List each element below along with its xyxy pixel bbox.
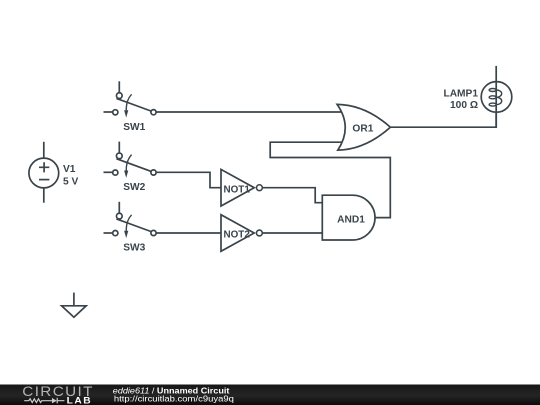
wire xyxy=(390,112,496,127)
svg-text:5 V: 5 V xyxy=(63,177,78,188)
svg-text:SW2: SW2 xyxy=(123,182,145,193)
wire xyxy=(43,188,45,203)
switch SW3 xyxy=(104,202,157,238)
wire xyxy=(270,142,390,217)
svg-text:LAB: LAB xyxy=(67,395,93,405)
wire xyxy=(156,172,221,187)
wire xyxy=(156,111,342,113)
svg-text:AND1: AND1 xyxy=(337,215,365,226)
svg-text:NOT2: NOT2 xyxy=(224,229,251,240)
svg-text:100 Ω: 100 Ω xyxy=(450,100,478,111)
switch SW1 xyxy=(104,81,157,117)
and gate AND1 xyxy=(322,195,375,240)
svg-text:http://circuitlab.com/c9uya9q: http://circuitlab.com/c9uya9q xyxy=(114,394,234,404)
voltage source V1 xyxy=(29,158,59,188)
svg-text:LAMP1: LAMP1 xyxy=(443,88,478,99)
svg-text:SW3: SW3 xyxy=(123,243,145,254)
lamp LAMP1 xyxy=(481,66,512,127)
logo resistor-diode squiggle xyxy=(24,398,64,404)
wire xyxy=(43,142,45,158)
not gate NOT2 xyxy=(221,215,262,252)
or gate OR1 xyxy=(337,104,390,150)
not gate NOT1 xyxy=(221,169,262,206)
wire xyxy=(263,188,323,203)
svg-text:OR1: OR1 xyxy=(352,124,373,135)
ground xyxy=(62,293,87,318)
wire xyxy=(156,232,221,234)
switch SW2 xyxy=(104,142,157,178)
wire xyxy=(263,232,323,234)
svg-text:NOT1: NOT1 xyxy=(224,184,251,195)
svg-text:V1: V1 xyxy=(63,164,76,175)
svg-text:SW1: SW1 xyxy=(123,122,145,133)
